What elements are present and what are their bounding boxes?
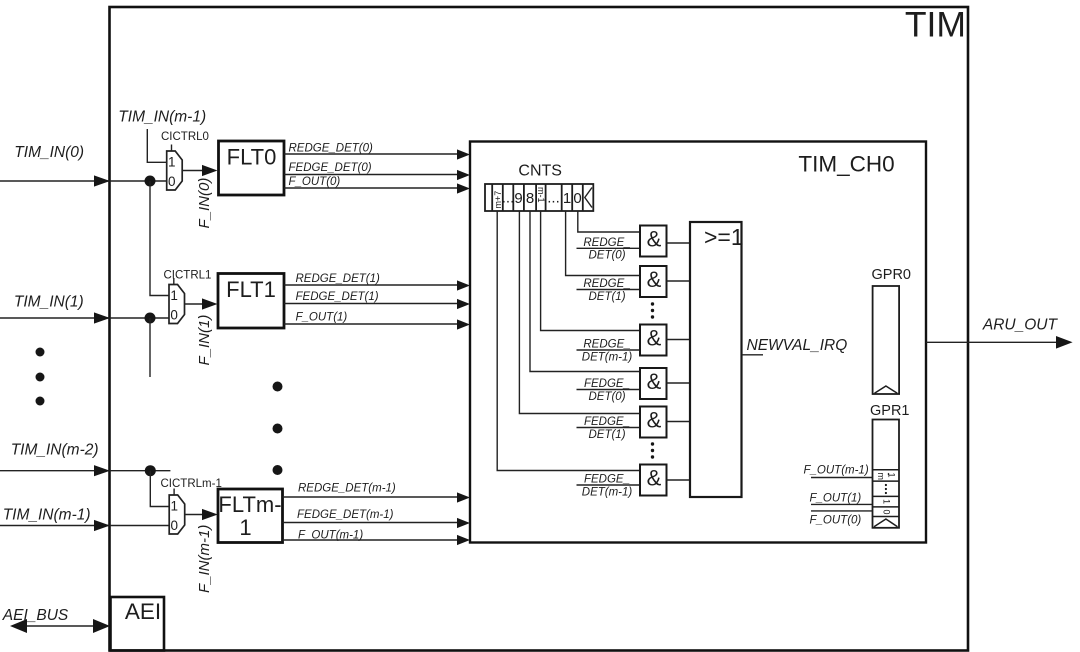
svg-text:F_IN(0): F_IN(0) [196,178,213,229]
svg-text:9: 9 [514,190,522,207]
svg-text:DET(1): DET(1) [588,291,625,303]
svg-text:DET(m-1): DET(m-1) [582,487,633,499]
svg-text:TIM_IN(0): TIM_IN(0) [14,144,84,161]
svg-text:...: ... [547,190,560,207]
svg-text:0: 0 [170,308,178,323]
svg-text:CICTRL0: CICTRL0 [161,131,209,143]
svg-text:TIM_IN(m-1): TIM_IN(m-1) [118,109,206,126]
svg-text:&: & [647,227,662,252]
svg-text:FEDGE_: FEDGE_ [584,378,630,390]
svg-text:TIM_CH0: TIM_CH0 [798,152,894,177]
svg-text:&: & [647,408,662,433]
svg-text:&: & [647,369,662,394]
svg-text:GPR0: GPR0 [872,267,912,283]
svg-text:1: 1 [881,499,891,504]
svg-text:REDGE_DET(1): REDGE_DET(1) [296,273,381,285]
svg-text:&: & [647,326,662,351]
svg-text:1: 1 [171,499,179,514]
svg-text:GPR1: GPR1 [870,403,910,419]
svg-text:1: 1 [170,288,178,303]
svg-text:DET(0): DET(0) [588,250,625,262]
svg-text:REDGE_: REDGE_ [583,278,630,290]
svg-text:ARU_OUT: ARU_OUT [982,317,1059,334]
svg-text:TIM_IN(1): TIM_IN(1) [14,294,84,311]
svg-text:1: 1 [563,190,571,207]
svg-text:TIM: TIM [905,5,966,45]
svg-text:CNTS: CNTS [518,163,562,180]
svg-text:&: & [647,267,662,292]
svg-text:FLTm-: FLTm- [218,492,281,517]
svg-text:1: 1 [239,515,251,540]
svg-text:8: 8 [526,190,534,207]
svg-text:NEWVAL_IRQ: NEWVAL_IRQ [747,337,848,354]
svg-text:>=1: >=1 [704,224,744,250]
svg-text:F_OUT(0): F_OUT(0) [810,515,862,527]
svg-text:CICTRLm-1: CICTRLm-1 [161,478,222,490]
svg-text:DET(m-1): DET(m-1) [582,352,633,364]
svg-text:0: 0 [573,190,581,207]
svg-text:FLT0: FLT0 [227,145,277,170]
svg-text:m-1: m-1 [536,187,546,203]
svg-text:&: & [647,466,662,491]
svg-text:FEDGE_: FEDGE_ [584,474,630,486]
svg-text:FEDGE_DET(1): FEDGE_DET(1) [296,291,379,303]
svg-text:F_IN(m-1): F_IN(m-1) [196,525,213,593]
svg-text:1: 1 [168,155,176,170]
svg-text:DET(1): DET(1) [588,429,625,441]
svg-text:FEDGE_DET(0): FEDGE_DET(0) [289,162,372,174]
svg-text:REDGE_: REDGE_ [583,237,630,249]
svg-text:0: 0 [881,510,891,515]
svg-text:F_OUT(1): F_OUT(1) [810,493,862,505]
svg-text:F_OUT(0): F_OUT(0) [289,176,341,188]
svg-text:CICTRL1: CICTRL1 [164,270,212,282]
svg-text:REDGE_: REDGE_ [583,339,630,351]
svg-text:0: 0 [171,518,179,533]
svg-text:AEI: AEI [125,599,161,624]
svg-text:FEDGE_: FEDGE_ [584,416,630,428]
svg-text:0: 0 [168,174,176,189]
svg-text:F_OUT(1): F_OUT(1) [296,312,348,324]
svg-text:REDGE_DET(0): REDGE_DET(0) [289,143,374,155]
svg-text:AEI_BUS: AEI_BUS [2,607,69,624]
svg-text:F_IN(1): F_IN(1) [196,315,213,366]
svg-text:FLT1: FLT1 [226,277,276,302]
svg-text:FEDGE_DET(m-1): FEDGE_DET(m-1) [297,509,394,521]
svg-text:DET(0): DET(0) [588,391,625,403]
svg-text:...: ... [502,190,515,207]
svg-text:TIM_IN(m-2): TIM_IN(m-2) [11,442,99,459]
svg-text:TIM_IN(m-1): TIM_IN(m-1) [3,507,91,524]
svg-text:F_OUT(m-1): F_OUT(m-1) [804,465,869,477]
svg-text:REDGE_DET(m-1): REDGE_DET(m-1) [298,483,396,495]
